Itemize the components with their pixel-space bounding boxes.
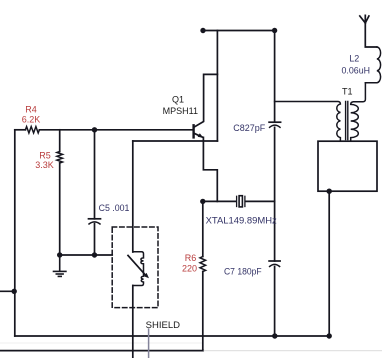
wire lower bus: [0, 350, 203, 352]
inductor L2: [365, 47, 380, 83]
wire C7 bottom: [274, 267, 276, 337]
wire shield coil feed: [132, 141, 134, 252]
wire shield feed: [60, 254, 112, 256]
svg-text:R4: R4: [25, 104, 37, 114]
capacitor C7: [269, 260, 280, 262]
wire R5 branch top: [59, 130, 61, 152]
wire C8 branch: [274, 31, 276, 123]
transformer T1 secondary: [351, 83, 366, 142]
wire shield coil bottom: [132, 286, 134, 358]
svg-text:Q1: Q1: [172, 95, 184, 105]
node base rail dot: [92, 127, 97, 132]
svg-text:R6: R6: [185, 253, 197, 263]
capacitor C5: [89, 218, 101, 220]
svg-text:3.3K: 3.3K: [35, 160, 54, 170]
resistor R6: [200, 257, 206, 272]
wire left stub out: [0, 290, 15, 292]
svg-text:SHIELD: SHIELD: [146, 320, 181, 330]
node xtal rail dot: [200, 199, 205, 204]
node box bottom dot: [327, 189, 332, 194]
wire collector link: [194, 74, 217, 127]
wire emitter: [194, 133, 217, 201]
capacitor C8: [269, 121, 281, 123]
svg-text:MPSH11: MPSH11: [163, 106, 198, 116]
wire xtal rail left: [203, 200, 236, 202]
ground: [54, 255, 66, 276]
wire top rail: [203, 30, 275, 32]
svg-text:C827pF: C827pF: [233, 123, 265, 133]
node left stub dot: [12, 289, 17, 294]
resistor R5: [57, 152, 63, 164]
antenna: [360, 15, 369, 23]
transformer T1 primary: [275, 102, 341, 142]
crystal XTAL: [236, 196, 238, 206]
wire lower bus faint right: [203, 350, 382, 352]
svg-text:T1: T1: [342, 87, 353, 97]
wire left vertical: [14, 130, 16, 336]
shield coil arrow: [128, 256, 145, 275]
shield dashed box: [112, 227, 158, 308]
wire R6 bottom: [202, 272, 204, 351]
wire box to bottom rail: [328, 191, 330, 336]
wire base to Q1: [39, 129, 192, 131]
transistor Q1: [192, 125, 194, 137]
svg-text:L2: L2: [349, 54, 359, 64]
wire C5 branch top: [94, 130, 96, 219]
resistor R4: [25, 127, 39, 133]
svg-text:220: 220: [182, 263, 197, 273]
svg-text:C7 180pF: C7 180pF: [224, 267, 262, 277]
emitter arrow: [198, 133, 204, 137]
wire bottom rail: [15, 335, 329, 337]
wire right branch vertical x=217: [216, 31, 218, 142]
wire R5 branch bottom: [59, 163, 61, 255]
shield leader line: [148, 329, 150, 358]
node R5 bottom dot: [57, 252, 62, 257]
svg-text:6.2K: 6.2K: [22, 114, 41, 124]
wire base: [15, 129, 26, 131]
svg-text:XTAL149.89MHz: XTAL149.89MHz: [206, 215, 278, 225]
wire xtal rail right: [246, 200, 275, 202]
node C5 bottom dot: [92, 252, 97, 257]
svg-text:0.06uH: 0.06uH: [342, 66, 371, 76]
inductor L1 shield coil: [133, 252, 144, 286]
wire feedback rail: [133, 140, 218, 142]
wire R6 branch: [202, 201, 204, 256]
faint band: [0, 342, 203, 344]
wire C8 to C7: [274, 127, 276, 261]
node bottom rail dot C7: [272, 333, 277, 338]
svg-text:R5: R5: [39, 150, 51, 160]
wire C5 branch bottom: [94, 224, 96, 255]
wire antenna down: [365, 23, 377, 47]
transformer T1 core: [346, 102, 348, 140]
node top rail right dot: [272, 28, 277, 33]
box below T1: [318, 141, 377, 191]
svg-text:C5 .001: C5 .001: [99, 203, 130, 213]
node collector rail left dot: [200, 28, 205, 33]
node bottom rail dot right: [327, 333, 332, 338]
